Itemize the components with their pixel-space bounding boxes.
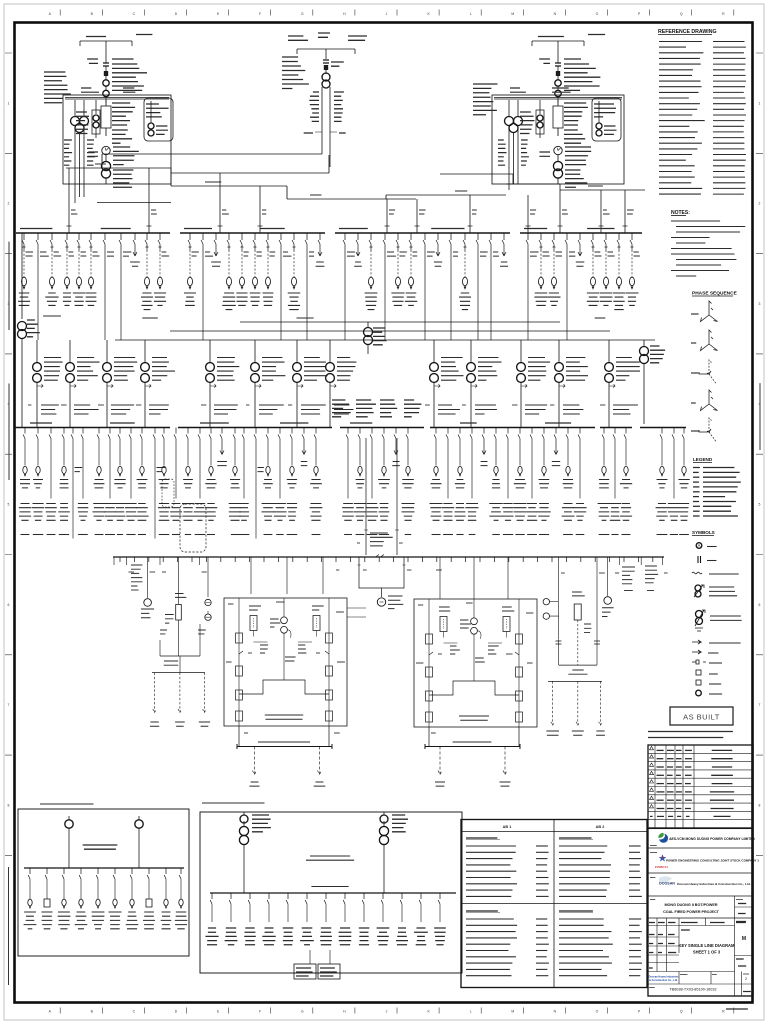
- 6kV motor feeder with motor F6: [86, 233, 100, 305]
- 6kV motor feeder with motor F37: [534, 233, 549, 305]
- 6kV spare feeder F9: [130, 233, 140, 266]
- svg-text:8: 8: [8, 803, 10, 807]
- distribution transformer T210: [201, 340, 239, 428]
- 400V MCC feeder with contactor LF9: [114, 428, 125, 535]
- 400V MCC feeder with contactor LF42: [537, 428, 550, 535]
- svg-text:2: 2: [8, 202, 10, 206]
- left margin vertical note: [8, 242, 10, 330]
- unit 2 generator-transformer group G2/T2: [473, 35, 624, 191]
- 400V switchgear buses: [14, 427, 686, 429]
- notes list: [671, 210, 745, 276]
- battery / charger tall feeders: [357, 438, 403, 555]
- 400V MCC feeder with contactor LF13: [158, 428, 170, 535]
- 6kV transformer feeder F32: [459, 233, 471, 310]
- svg-text:5: 5: [759, 503, 761, 507]
- bus riser wires with N.C. switches: [67, 164, 634, 233]
- future load dashed outline: [162, 479, 174, 507]
- interconnecting tie lines: [66, 154, 645, 203]
- 6kV transformer feeder F25: [365, 233, 378, 310]
- svg-text:LEGEND: LEGEND: [693, 457, 713, 462]
- distribution transformer T145: [136, 340, 175, 428]
- 400V MCC feeder with contactor LF11: [135, 428, 148, 535]
- svg-text:MONG DUONG II BOT/POWER: MONG DUONG II BOT/POWER: [664, 903, 717, 907]
- 6kV motor feeder with motor F27: [391, 233, 406, 305]
- distribution transformer T471: [462, 340, 502, 428]
- 6kV spare feeder F14: [211, 233, 221, 266]
- future panel feeders: [249, 747, 510, 787]
- 400V MCC feeder with contactor LF44: [562, 428, 575, 535]
- 400V panel feeder LF14: [170, 428, 182, 535]
- auxiliary normal MCC 480V box: [18, 804, 189, 956]
- 480/277V panel buses: [237, 726, 520, 749]
- 400V MCC feeder with contactor LF48: [620, 428, 632, 535]
- svg-text:3: 3: [759, 302, 761, 306]
- 6kV motor feeder with motor F1: [18, 233, 33, 305]
- svg-text:M: M: [742, 936, 746, 942]
- changeover switch labels: [332, 400, 421, 417]
- 400V spare feeder LF25: [301, 428, 308, 466]
- 400V panel feeder LF41: [527, 428, 538, 535]
- distribution transformer T70: [61, 340, 100, 428]
- 400V panel feeder LF8: [104, 428, 117, 535]
- unit 1 generator-transformer group G1/T1: [44, 35, 173, 204]
- distribution transformer T255: [246, 340, 285, 428]
- svg-text:8: 8: [759, 803, 761, 807]
- cross-tie cables: [115, 322, 655, 340]
- svg-text:O: O: [596, 1009, 599, 1013]
- AS BUILT stamp: [670, 707, 733, 725]
- 6kV spare feeder F22: [316, 233, 325, 266]
- 6kV motor feeder with motor F18: [263, 233, 276, 305]
- 6kV motor feeder with motor F42: [600, 233, 615, 305]
- 400V MCC feeder with contactor LF19: [229, 428, 242, 535]
- 6kV tie feeder wire F34: [489, 233, 499, 340]
- station service transformer TS1: [18, 233, 40, 427]
- 400V panel feeder LF50: [668, 428, 680, 535]
- 400V panel feeder LF47: [609, 428, 622, 535]
- 6kV motor feeder with motor F38: [548, 233, 562, 305]
- 6kV motor feeder with motor F3: [45, 233, 61, 305]
- 400V spare feeder LF37: [481, 428, 488, 466]
- 400V MCC feeder with contactor LF2: [32, 428, 45, 535]
- 400V spare feeder LF43: [552, 428, 560, 466]
- 6kV tie feeder wire F8: [119, 233, 131, 340]
- auxiliary feeder cluster left with lighting transformer: [114, 557, 211, 726]
- svg-text:EVNPECC1: EVNPECC1: [655, 866, 669, 869]
- 400V MCC feeder with contactor LF28: [354, 428, 367, 535]
- 6kV transformer feeder F20: [288, 233, 301, 310]
- svg-text:G: G: [301, 12, 304, 16]
- 6kV tie feeder wire F21: [305, 233, 314, 340]
- ESP transformer-rectifier set 1 enclosure: [224, 598, 347, 726]
- 6kV tie feeder wire F33: [476, 233, 488, 340]
- 400V spare feeder LF18: [217, 428, 227, 466]
- 400V MCC feeder with contactor LF22: [262, 428, 275, 535]
- station service transformer TS2: [364, 322, 387, 354]
- 6kV motor feeder with motor F16: [236, 233, 248, 305]
- svg-text:AB 2: AB 2: [596, 825, 605, 829]
- svg-text:7: 7: [759, 703, 761, 707]
- svg-text:& Construction Co., Ltd.: & Construction Co., Ltd.: [649, 979, 678, 982]
- 480V MCC bus taps: [120, 557, 653, 562]
- distribution transformer T609: [600, 340, 640, 428]
- 6kV motor feeder with motor F5: [73, 233, 86, 305]
- 400V MCC feeder with contactor LF26: [310, 428, 323, 535]
- svg-text:1: 1: [8, 101, 10, 105]
- 400V bus labels: [30, 422, 571, 424]
- corner sheet note: [726, 1008, 748, 1010]
- 400V MCC feeder with contactor LF15: [182, 428, 194, 535]
- revision history table: [648, 745, 753, 828]
- svg-text:M: M: [511, 1009, 514, 1013]
- 400V MCC feeder with contactor LF35: [454, 428, 465, 535]
- unit standby maintenance MCC box: [200, 803, 462, 979]
- svg-text:Q: Q: [680, 1009, 683, 1013]
- symbols key: [692, 530, 742, 696]
- 400V panel feeder LF45: [573, 428, 586, 535]
- drawing title and number cells: [648, 918, 753, 996]
- ownership note: [648, 732, 733, 738]
- svg-text:F: F: [259, 12, 261, 16]
- svg-text:G: G: [301, 1009, 304, 1013]
- 6kV switchgear buses: [16, 229, 642, 234]
- 6kV transformer feeder F10: [141, 233, 153, 310]
- svg-text:TB6038-TX03-85100-16032: TB6038-TX03-85100-16032: [669, 988, 716, 992]
- 400V through feeder wire LF21: [254, 428, 264, 539]
- svg-text:6: 6: [8, 603, 10, 607]
- 6kV spare feeder F30: [434, 233, 442, 266]
- 6kV tie feeder wire F31: [449, 233, 458, 340]
- 6kV tie feeder wire F29: [423, 233, 435, 340]
- svg-text:DOOSAN: DOOSAN: [659, 882, 675, 886]
- 6kV motor feeder with motor F11: [154, 233, 169, 305]
- 6kV spare feeder F40: [576, 233, 585, 266]
- distribution transformer T521: [512, 340, 550, 428]
- auxiliary transformer TA9: [640, 340, 666, 424]
- svg-text:Doosan Heavy Industries & Cons: Doosan Heavy Industries & Construction C…: [677, 882, 751, 886]
- svg-text:AB 1: AB 1: [503, 825, 512, 829]
- svg-text:COAL FIRED POWER PROJECT: COAL FIRED POWER PROJECT: [663, 910, 720, 914]
- svg-text:M: M: [511, 12, 514, 16]
- 6kV motor feeder with motor F4: [63, 233, 74, 305]
- distribution transformer T330: [321, 340, 356, 428]
- ESP set 1 outgoing links: [347, 608, 366, 617]
- svg-text:2: 2: [759, 202, 761, 206]
- 400V panel feeder LF39: [502, 428, 513, 535]
- 6kV motor feeder with motor F17: [250, 233, 262, 305]
- 400V MCC feeder with contactor LF51: [678, 428, 689, 535]
- 400V through feeder wire LF12: [153, 428, 165, 539]
- distribution transformer T559: [550, 340, 588, 428]
- title block with company logos: [648, 828, 759, 996]
- 400V MCC feeder with contactor LF33: [430, 428, 443, 535]
- 6kV tie feeder wire F39: [565, 233, 575, 340]
- load list tables: [461, 820, 647, 988]
- 6kV motor feeder with motor F28: [405, 233, 417, 305]
- future feeder dashed outline: [180, 504, 206, 552]
- 400V MCC feeder with contactor LF30: [378, 428, 390, 535]
- 6kV transformer feeder F15: [222, 233, 236, 310]
- 400V MCC feeder with contactor LF46: [598, 428, 611, 535]
- distribution transformer T297: [288, 340, 328, 428]
- svg-text:POWER ENGINEERING CONSULTING J: POWER ENGINEERING CONSULTING JOINT STOCK…: [666, 859, 759, 863]
- 6kV tie feeder wire F26: [383, 233, 396, 340]
- 6kV motor feeder with motor F44: [625, 233, 640, 305]
- 400V panel feeder LF6: [78, 428, 89, 535]
- svg-text:L: L: [470, 12, 472, 16]
- 6kV tie feeder wire F13: [201, 233, 213, 340]
- 480V MCC bus: [113, 556, 664, 558]
- 400V spare feeder LF31: [392, 428, 400, 466]
- phase sequence vector diagrams: [691, 291, 738, 442]
- distribution transformer T434: [425, 340, 464, 428]
- svg-text:7: 7: [8, 703, 10, 707]
- spare transformer and feeder cluster right: [543, 557, 668, 735]
- 400V MCC feeder with contactor LF17: [205, 428, 218, 535]
- 400V panel feeder LF3: [45, 428, 57, 535]
- 400V panel feeder LF23: [273, 428, 286, 535]
- 400V panel feeder LF36: [465, 428, 478, 535]
- 400V MCC feeder with contactor LF40: [513, 428, 526, 535]
- 6kV tie feeder wire F19: [279, 233, 291, 340]
- 400V MCC feeder with contactor LF49: [656, 428, 669, 535]
- 400V panel feeder LF20: [239, 428, 250, 535]
- distribution transformer T107: [98, 340, 137, 428]
- svg-text:L: L: [470, 1009, 472, 1013]
- 400V MCC feeder with contactor LF7: [93, 428, 106, 535]
- standby transformer unit T3: [282, 33, 367, 167]
- 400V panel feeder LF16: [194, 428, 207, 535]
- legend abbreviation list: [693, 457, 741, 516]
- 400V panel feeder LF29: [366, 428, 379, 535]
- 6kV tie feeder wire F23: [343, 233, 355, 340]
- 6kV motor feeder with motor F12: [184, 233, 199, 305]
- 400V panel feeder LF34: [442, 428, 454, 535]
- svg-text:5: 5: [8, 503, 10, 507]
- 400V MCC feeder with contactor LF38: [489, 428, 502, 535]
- svg-text:F: F: [259, 1009, 261, 1013]
- 400V MCC feeder with contactor LF4: [58, 428, 70, 535]
- 400V MCC feeder with contactor LF1: [19, 428, 31, 535]
- svg-text:1: 1: [759, 101, 761, 105]
- 6kV tie feeder wire F2: [36, 233, 49, 340]
- 6kV tie feeder wire F36: [526, 233, 539, 340]
- svg-text:6: 6: [759, 603, 761, 607]
- ESP enclosure supply connections: [251, 557, 508, 599]
- svg-text:SHEET 1 OF 3: SHEET 1 OF 3: [693, 950, 721, 955]
- 6kV motor feeder with motor F41: [587, 233, 602, 305]
- 400V MCC feeder with contactor LF24: [287, 428, 298, 535]
- svg-text:J: J: [386, 12, 388, 16]
- MCC bus tie loop and standby generator: [336, 555, 442, 609]
- ESP transformer-rectifier set 2 enclosure: [414, 599, 537, 727]
- distribution transformer T37: [28, 340, 63, 428]
- 6kV spare feeder F35: [500, 233, 508, 266]
- 6kV spare feeder F24: [354, 233, 362, 266]
- 400V through feeder wire LF5: [71, 428, 82, 539]
- 400V panel feeder LF27: [342, 428, 354, 535]
- svg-text:AES-VCM MONG DUONG POWER COMPA: AES-VCM MONG DUONG POWER COMPANY LIMITED: [669, 837, 755, 841]
- switchgear group labels: [43, 316, 605, 318]
- 6kV tie feeder wire F7: [103, 233, 114, 340]
- svg-text:KEY SINGLE LINE DIAGRAM: KEY SINGLE LINE DIAGRAM: [679, 943, 735, 948]
- svg-text:Q: Q: [680, 12, 683, 16]
- svg-text:O: O: [596, 12, 599, 16]
- svg-text:AS BUILT: AS BUILT: [683, 713, 720, 722]
- svg-text:2: 2: [745, 977, 747, 981]
- reference drawing list: [658, 29, 746, 194]
- svg-text:SYMBOLS: SYMBOLS: [692, 530, 715, 535]
- svg-text:J: J: [386, 1009, 388, 1013]
- 6kV transformer feeder F43: [613, 233, 625, 310]
- 400V MCC feeder with contactor LF32: [402, 428, 415, 535]
- 400V panel feeder LF10: [125, 428, 137, 535]
